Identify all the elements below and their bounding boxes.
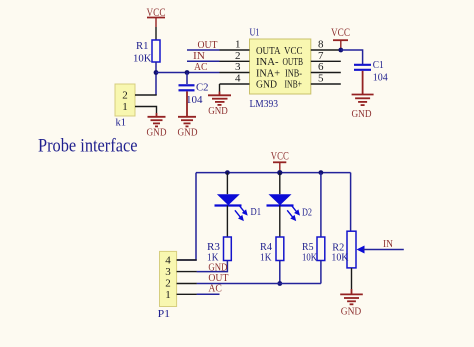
k1 pin 2 line bbox=[135, 94, 157, 96]
svg-text:INA-: INA- bbox=[256, 56, 279, 68]
ground GND (under C1) bbox=[352, 71, 374, 105]
svg-text:4: 4 bbox=[165, 255, 171, 267]
wire R4 bottom to OUT bbox=[279, 261, 281, 284]
ground GND (U1 pin 4) bbox=[219, 84, 221, 92]
wire right drop to R2 bbox=[350, 173, 352, 232]
potentiometer R2 bbox=[331, 231, 403, 268]
svg-text:5: 5 bbox=[318, 73, 324, 85]
svg-text:INB+: INB+ bbox=[285, 79, 303, 91]
svg-text:AC: AC bbox=[194, 61, 208, 73]
svg-text:Probe interface: Probe interface bbox=[38, 136, 138, 157]
LED D2 bbox=[267, 173, 313, 237]
svg-text:C2: C2 bbox=[196, 82, 209, 94]
svg-text:GND: GND bbox=[178, 127, 198, 139]
svg-text:10K: 10K bbox=[331, 251, 348, 263]
svg-text:OUTB: OUTB bbox=[283, 56, 304, 68]
resistor R1 bbox=[133, 40, 160, 65]
svg-text:8: 8 bbox=[318, 39, 324, 51]
op-amp U1 LM393 body bbox=[250, 27, 311, 111]
svg-text:IN: IN bbox=[193, 50, 205, 62]
svg-text:1: 1 bbox=[165, 289, 171, 301]
svg-text:10K: 10K bbox=[302, 252, 317, 264]
svg-text:1: 1 bbox=[235, 39, 241, 51]
capacitor C1 bbox=[354, 59, 388, 84]
wire R3 bottom to GND stub bbox=[197, 261, 228, 272]
svg-text:1K: 1K bbox=[260, 252, 272, 264]
svg-text:k1: k1 bbox=[116, 117, 127, 129]
U1 pin names bbox=[256, 45, 303, 91]
svg-text:6: 6 bbox=[318, 61, 324, 73]
ground GND (under R2) bbox=[351, 268, 353, 289]
node junction D1/rail bbox=[225, 170, 230, 175]
wire pin8 to C1 bbox=[341, 50, 363, 64]
VCC power port (bottom rail) bbox=[271, 149, 289, 173]
svg-text:OUT: OUT bbox=[198, 39, 218, 51]
svg-text:2: 2 bbox=[165, 278, 171, 290]
svg-text:3: 3 bbox=[235, 61, 241, 73]
wire AC net horizontal bbox=[156, 72, 220, 74]
wire R1 bottom to junction bbox=[155, 62, 157, 95]
svg-text:4: 4 bbox=[235, 73, 241, 85]
wire left drop to P1 pin4 bbox=[177, 173, 196, 260]
wire AC stub bbox=[197, 293, 220, 295]
LED D1 bbox=[215, 173, 262, 237]
svg-text:GND: GND bbox=[341, 306, 362, 318]
connector k1 bbox=[115, 84, 135, 129]
U1 right pin lines 8-5 bbox=[311, 50, 341, 84]
svg-text:VCC: VCC bbox=[331, 25, 350, 39]
wire OUT net bbox=[197, 283, 321, 285]
svg-text:1: 1 bbox=[122, 101, 128, 113]
capacitor C2 bbox=[179, 73, 209, 107]
wire VCC to R1 bbox=[155, 27, 157, 40]
node junction R4/OUT bbox=[277, 281, 282, 286]
P1 pin 4 line bbox=[177, 259, 197, 261]
P1 pin 1 line bbox=[177, 293, 197, 295]
wire R5 bottom to OUT bbox=[320, 261, 322, 284]
U1 left pin numbers bbox=[235, 39, 241, 85]
node junction R5/rail bbox=[319, 170, 324, 175]
node junction C2 bbox=[185, 70, 190, 75]
U1 right pin numbers bbox=[318, 39, 324, 85]
U1 left pin lines 1-4 bbox=[220, 50, 250, 84]
svg-text:D2: D2 bbox=[302, 207, 312, 219]
svg-text:LM393: LM393 bbox=[250, 98, 279, 110]
svg-text:104: 104 bbox=[373, 72, 388, 84]
wire IN net bbox=[187, 60, 220, 62]
svg-text:INB-: INB- bbox=[285, 67, 302, 79]
VCC power port (U1 pin 8) bbox=[331, 25, 350, 50]
ground GND (under k1 pin1) bbox=[148, 113, 166, 126]
resistor R4 bbox=[260, 237, 284, 264]
svg-text:VCC: VCC bbox=[271, 149, 289, 163]
svg-text:OUTA: OUTA bbox=[256, 45, 281, 57]
node junction VCC/D2/rail bbox=[277, 170, 282, 175]
svg-text:3: 3 bbox=[165, 266, 171, 278]
svg-text:10K: 10K bbox=[133, 53, 152, 65]
svg-text:104: 104 bbox=[186, 94, 203, 106]
resistor R5 bbox=[302, 173, 325, 264]
svg-text:P1: P1 bbox=[158, 308, 171, 320]
svg-text:U1: U1 bbox=[250, 27, 260, 39]
k1 pin 1 line bbox=[135, 107, 157, 114]
svg-text:IN: IN bbox=[383, 238, 393, 250]
svg-text:2: 2 bbox=[235, 50, 241, 62]
svg-text:GND: GND bbox=[147, 127, 167, 139]
P1 pin 2 line bbox=[177, 283, 197, 285]
svg-text:R1: R1 bbox=[136, 40, 149, 52]
VCC power port (top left, above R1) bbox=[147, 5, 166, 27]
svg-text:7: 7 bbox=[318, 50, 324, 62]
svg-text:GND: GND bbox=[256, 79, 277, 91]
wire OUT net bbox=[187, 49, 220, 51]
ground GND (under C2) bbox=[178, 91, 196, 126]
wire top rail bbox=[196, 172, 351, 174]
svg-text:2: 2 bbox=[122, 90, 128, 102]
P1 pin 3 line bbox=[177, 271, 197, 273]
svg-text:AC: AC bbox=[208, 283, 222, 295]
svg-text:INA+: INA+ bbox=[256, 67, 280, 79]
svg-text:D1: D1 bbox=[251, 206, 262, 218]
node junction pin8/VCC/C1 bbox=[338, 48, 343, 53]
resistor R3 bbox=[207, 237, 231, 264]
svg-text:VCC: VCC bbox=[284, 45, 303, 57]
connector P1 bbox=[158, 251, 177, 320]
svg-text:GND: GND bbox=[352, 108, 372, 120]
svg-text:GND: GND bbox=[208, 105, 228, 117]
svg-text:C1: C1 bbox=[373, 59, 384, 71]
node junction R1/k1/AC bbox=[154, 70, 159, 75]
